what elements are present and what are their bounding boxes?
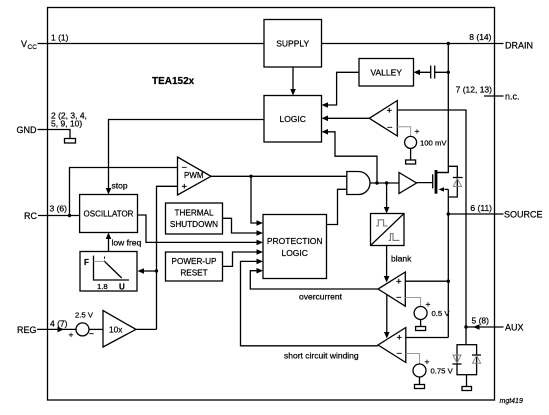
svg-text:POWER-UP: POWER-UP xyxy=(171,257,217,266)
svg-text:mgt419: mgt419 xyxy=(500,398,523,405)
svg-text:stop: stop xyxy=(112,181,128,191)
svg-text:LOGIC: LOGIC xyxy=(281,248,307,258)
svg-text:1.8: 1.8 xyxy=(97,282,108,291)
svg-text:1 (1): 1 (1) xyxy=(51,33,69,43)
svg-text:TEA152x: TEA152x xyxy=(152,76,195,87)
svg-text:SOURCE: SOURCE xyxy=(504,210,543,220)
svg-text:SUPPLY: SUPPLY xyxy=(276,39,309,49)
svg-text:short circuit winding: short circuit winding xyxy=(284,351,359,361)
svg-text:3 (6): 3 (6) xyxy=(50,204,68,214)
svg-text:−: − xyxy=(387,123,393,134)
svg-text:6 (11): 6 (11) xyxy=(470,203,492,213)
svg-text:REG: REG xyxy=(17,325,37,335)
svg-text:7 (12, 13): 7 (12, 13) xyxy=(456,85,493,95)
svg-text:0.75 V: 0.75 V xyxy=(431,367,454,376)
svg-text:−: − xyxy=(397,349,403,360)
svg-text:5, 9, 10): 5, 9, 10) xyxy=(51,119,82,129)
svg-text:2.5 V: 2.5 V xyxy=(75,311,94,320)
svg-text:V: V xyxy=(21,39,27,49)
svg-text:0.5 V: 0.5 V xyxy=(432,309,451,318)
svg-text:F: F xyxy=(84,258,89,267)
svg-text:DRAIN: DRAIN xyxy=(505,40,533,50)
svg-text:U: U xyxy=(119,283,125,292)
svg-text:100 mV: 100 mV xyxy=(420,139,447,148)
svg-text:GND: GND xyxy=(17,125,38,135)
svg-text:+: + xyxy=(182,181,188,192)
svg-text:blank: blank xyxy=(391,254,412,264)
svg-text:SHUTDOWN: SHUTDOWN xyxy=(170,220,218,229)
svg-text:+: + xyxy=(397,333,403,344)
svg-text:+: + xyxy=(396,277,402,288)
svg-text:4 (7): 4 (7) xyxy=(50,319,68,329)
svg-text:VALLEY: VALLEY xyxy=(370,68,402,78)
svg-text:5 (8): 5 (8) xyxy=(472,316,490,326)
svg-text:−: − xyxy=(396,293,402,304)
svg-text:+: + xyxy=(415,126,420,136)
svg-text:PROTECTION: PROTECTION xyxy=(267,236,323,246)
svg-text:LOGIC: LOGIC xyxy=(279,114,305,124)
svg-text:low freq: low freq xyxy=(112,238,142,248)
svg-text:RC: RC xyxy=(24,211,37,221)
svg-text:CC: CC xyxy=(28,44,38,51)
svg-text:overcurrent: overcurrent xyxy=(299,292,343,302)
svg-text:−: − xyxy=(182,163,188,174)
svg-text:AUX: AUX xyxy=(505,323,524,333)
svg-text:n.c.: n.c. xyxy=(505,92,520,102)
svg-text:+: + xyxy=(69,330,74,340)
svg-text:−: − xyxy=(89,329,94,339)
svg-text:8 (14): 8 (14) xyxy=(469,32,491,42)
svg-text:10x: 10x xyxy=(109,325,123,335)
svg-text:OSCILLATOR: OSCILLATOR xyxy=(84,210,134,219)
svg-text:+: + xyxy=(426,299,431,309)
svg-text:+: + xyxy=(425,357,430,367)
svg-text:+: + xyxy=(387,106,393,117)
svg-text:THERMAL: THERMAL xyxy=(174,209,214,218)
svg-text:RESET: RESET xyxy=(180,269,207,278)
